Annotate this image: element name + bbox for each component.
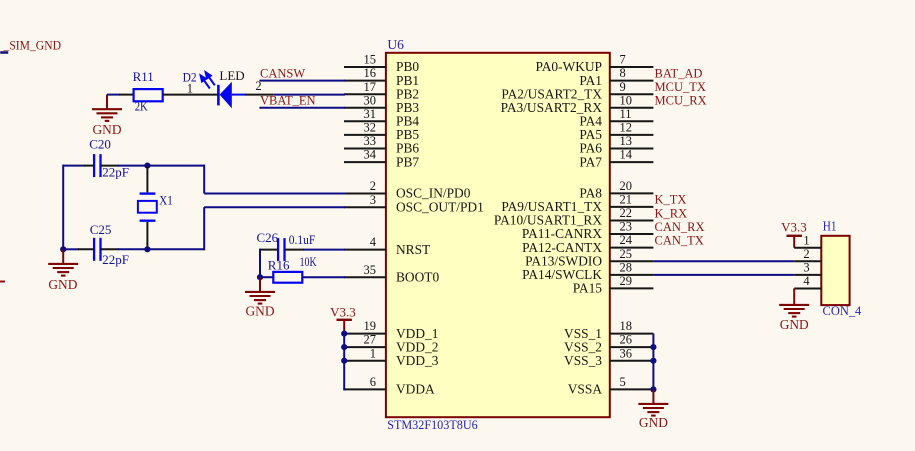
svg-text:_SIM_GND: _SIM_GND <box>3 37 61 52</box>
svg-text:17: 17 <box>364 80 377 94</box>
wire top row right <box>101 165 148 167</box>
svg-text:R11: R11 <box>133 69 154 84</box>
pin stub PA0-WKUP (pin 7) right <box>610 66 654 68</box>
pin name PB2 <box>396 86 419 101</box>
pin name PA2/USART2_TX <box>501 86 602 101</box>
junction R16 left <box>257 274 263 280</box>
wire bottom row right <box>101 248 148 250</box>
pin stub PA12-CANTX (pin 24) right <box>610 247 654 249</box>
pin number 28 right <box>620 261 633 275</box>
label R11 <box>133 69 154 84</box>
pin number 4 left <box>370 235 377 249</box>
svg-text:36: 36 <box>620 346 633 360</box>
svg-text:GND: GND <box>780 317 809 332</box>
svg-text:10K: 10K <box>300 255 317 269</box>
H1 pin number 3 <box>803 261 809 275</box>
net label VBAT_EN <box>260 94 316 108</box>
pin number 8 right <box>620 66 626 80</box>
pin number 5 right <box>620 375 626 389</box>
pin stub PA4 (pin 11) right <box>610 120 654 122</box>
svg-text:33: 33 <box>364 134 377 148</box>
label C20 <box>89 137 111 152</box>
pin number 35 left <box>364 263 377 277</box>
power V3.3 (H1) <box>787 236 802 248</box>
label C26 <box>257 230 279 245</box>
pin name PA12-CANTX <box>522 240 602 255</box>
net label CANSW <box>260 66 305 80</box>
IC U6 body <box>386 53 610 417</box>
svg-text:MCU_TX: MCU_TX <box>655 80 706 94</box>
pin name BOOT0 <box>396 269 439 284</box>
wire corner down to junction <box>259 249 261 278</box>
pin stub PB6 (pin 33) left <box>344 148 386 150</box>
svg-text:3: 3 <box>370 193 376 207</box>
pin number 10 right <box>620 93 633 107</box>
GND label (R11 branch) <box>92 122 121 137</box>
pin name PA1 <box>579 73 602 88</box>
value 22pF (C20) <box>102 165 129 180</box>
value 0.1uF <box>289 233 316 247</box>
value 10K <box>300 255 317 269</box>
pin stub VSSA (pin 5) right <box>610 388 654 390</box>
pin name PA3/USART2_RX <box>501 100 603 115</box>
pin stub PB4 (pin 31) left <box>344 120 386 122</box>
svg-text:26: 26 <box>620 333 633 347</box>
pin stub VDD_3 (pin 1) left <box>344 360 386 362</box>
pin number 31 left <box>364 107 377 121</box>
ground symbol (BOOT0 branch) <box>245 277 275 303</box>
pin name OSC_IN/PD0 <box>396 186 471 201</box>
pin stub PA1 (pin 8) right <box>610 80 654 82</box>
svg-text:20: 20 <box>620 179 633 193</box>
pin name PB7 <box>396 154 419 169</box>
pin stub PA13/SWDIO (pin 25) right <box>610 260 654 262</box>
svg-text:35: 35 <box>364 263 377 277</box>
svg-text:PA7: PA7 <box>579 154 602 169</box>
svg-text:GND: GND <box>245 304 274 319</box>
pin number 7 right <box>620 53 626 67</box>
svg-text:VSS_3: VSS_3 <box>564 353 602 368</box>
value 22pF (C25) <box>102 252 129 267</box>
pin stub PA7 (pin 14) right <box>610 161 654 163</box>
LED D2 emission arrows <box>201 72 215 88</box>
value 2K <box>135 99 148 113</box>
pin number 34 left <box>364 148 377 162</box>
svg-text:CANSW: CANSW <box>260 66 305 80</box>
svg-text:PA15: PA15 <box>573 281 603 296</box>
pin name PB0 <box>396 59 419 74</box>
svg-text:28: 28 <box>620 261 633 275</box>
ground symbol (R11 branch) <box>92 95 122 121</box>
pin stub PB7 (pin 34) left <box>344 161 386 163</box>
pin number 32 left <box>364 121 377 135</box>
GND label (H1) <box>780 317 809 332</box>
pin stub PA2/USART2_TX (pin 9) right <box>610 93 654 95</box>
pin name PA9/USART1_TX <box>501 199 602 214</box>
pin number 30 left <box>364 93 377 107</box>
pin stub VDDA (pin 6) left <box>344 388 386 390</box>
svg-text:18: 18 <box>620 319 633 333</box>
wire VBAT_EN net <box>259 107 345 109</box>
junction left bottom <box>60 246 66 252</box>
svg-text:11: 11 <box>620 107 632 121</box>
svg-text:2: 2 <box>803 247 809 261</box>
net label K_RX <box>655 206 688 220</box>
pin number 6 left <box>370 375 376 389</box>
svg-text:CON_4: CON_4 <box>823 304 862 318</box>
net label MCU_TX <box>655 80 706 94</box>
svg-text:25: 25 <box>620 247 633 261</box>
net label BAT_AD <box>655 66 703 80</box>
label X1 <box>159 193 173 207</box>
pin stub VSS_2 (pin 26) right <box>610 346 654 348</box>
pin number 26 right <box>620 333 633 347</box>
pin number 12 right <box>620 121 633 135</box>
pin stub OSC_IN/PD0 (pin 2) left <box>344 193 386 195</box>
wire top row left <box>63 165 94 167</box>
GND label (BOOT0 branch) <box>245 304 274 319</box>
connector H1 value CON_4 <box>823 304 862 318</box>
svg-text:VSSA: VSSA <box>568 382 603 397</box>
LED pin number 1 <box>187 81 193 95</box>
pin stub PA8 (pin 20) right <box>610 192 654 194</box>
svg-text:30: 30 <box>364 93 377 107</box>
capacitor C20 <box>94 154 100 177</box>
wire GND to R11 <box>107 94 134 96</box>
wire junction to corner bottom <box>147 248 204 250</box>
wire VSS vertical <box>652 334 654 390</box>
pin stub VSS_1 (pin 18) right <box>610 333 654 335</box>
V3.3 label (H1) <box>781 220 807 235</box>
svg-text:MCU_RX: MCU_RX <box>655 94 707 108</box>
pin stub PA3/USART2_RX (pin 10) right <box>610 107 654 109</box>
label D2 <box>183 70 197 84</box>
junction bottom of X1 <box>144 246 150 252</box>
svg-text:27: 27 <box>364 333 377 347</box>
svg-text:14: 14 <box>620 148 633 162</box>
wire C26 left to corner <box>260 249 278 251</box>
pin number 21 right <box>620 193 633 207</box>
pin stub PA6 (pin 13) right <box>610 148 654 150</box>
svg-text:BAT_AD: BAT_AD <box>655 66 703 80</box>
svg-text:GND: GND <box>48 277 77 292</box>
pin stub PA11-CANRX (pin 23) right <box>610 233 654 235</box>
pin name PB4 <box>396 114 419 129</box>
svg-text:12: 12 <box>620 121 633 135</box>
svg-text:4: 4 <box>370 235 377 249</box>
H1 pin 3 lead <box>794 274 821 276</box>
pin name PB6 <box>396 141 419 156</box>
pin stub PB0 (pin 15) left <box>344 66 386 68</box>
junction VSS_2 <box>650 344 656 350</box>
pin stub PA15 (pin 29) right <box>610 287 654 289</box>
LED pin number 2 <box>255 79 261 93</box>
pin stub NRST (pin 4) left <box>344 249 386 251</box>
svg-text:15: 15 <box>364 53 377 67</box>
pin number 20 right <box>620 179 633 193</box>
wire R11 to LED <box>163 94 218 96</box>
svg-text:1: 1 <box>370 346 376 360</box>
capacitor C25 <box>94 238 100 261</box>
svg-text:1: 1 <box>803 233 809 247</box>
pin number 23 right <box>620 220 633 234</box>
H1 pin 2 lead <box>794 260 821 262</box>
svg-text:9: 9 <box>620 80 626 94</box>
svg-text:4: 4 <box>803 274 810 288</box>
wire VDD vertical <box>343 334 345 390</box>
pin number 3 left <box>370 193 376 207</box>
H1 pin number 1 <box>803 233 809 247</box>
svg-text:1: 1 <box>187 81 193 95</box>
svg-text:V3.3: V3.3 <box>330 305 356 320</box>
svg-text:GND: GND <box>639 415 668 430</box>
net label _SIM_GND <box>0 37 61 52</box>
wire R16 to BOOT0 <box>302 276 345 278</box>
GND label (crystal) <box>48 277 77 292</box>
wire junction to R16 <box>260 276 273 278</box>
pin name PA0-WKUP <box>536 59 602 74</box>
pin name NRST <box>396 242 430 257</box>
IC U6 part value STM32F103T8U6 <box>387 417 478 432</box>
pin number 15 left <box>364 53 377 67</box>
wire X1 bottom lead <box>146 222 148 249</box>
svg-text:CAN_TX: CAN_TX <box>655 233 704 247</box>
svg-text:C25: C25 <box>90 222 112 237</box>
wire corner down to OSC_IN <box>204 165 345 194</box>
svg-text:VBAT_EN: VBAT_EN <box>260 94 316 108</box>
pin number 36 right <box>620 346 633 360</box>
svg-text:VDDA: VDDA <box>396 382 435 397</box>
junction VDD_3 <box>341 358 347 364</box>
pin name VSS_3 <box>564 353 602 368</box>
pin number 9 right <box>620 80 626 94</box>
pin name PA4 <box>579 114 602 129</box>
H1 pin 1 lead <box>794 247 821 249</box>
svg-text:C20: C20 <box>89 137 111 152</box>
pin stub PA5 (pin 12) right <box>610 134 654 136</box>
pin number 2 left <box>370 179 376 193</box>
svg-text:8: 8 <box>620 66 626 80</box>
ground symbol (VSS rail) <box>638 389 668 415</box>
svg-text:24: 24 <box>620 233 633 247</box>
connector H1 body <box>821 236 849 305</box>
crystal X1 <box>138 194 157 221</box>
pin name VSSA <box>568 382 603 397</box>
pin stub PB5 (pin 32) left <box>344 134 386 136</box>
wire LED to PB2 <box>245 94 345 96</box>
pin stub PB1 (pin 16) left <box>344 80 386 82</box>
ground symbol (H1) <box>779 289 809 317</box>
net label MCU_RX <box>655 94 707 108</box>
svg-text:19: 19 <box>364 319 377 333</box>
svg-text:VDD_3: VDD_3 <box>396 353 439 368</box>
pin name PA6 <box>579 141 602 156</box>
svg-text:21: 21 <box>620 193 633 207</box>
pin name PA10/USART1_RX <box>494 213 602 228</box>
pin number 27 left <box>364 333 377 347</box>
H1 pin 4 lead <box>794 288 821 290</box>
pin stub PA10/USART1_RX (pin 22) right <box>610 220 654 222</box>
connector H1 designator <box>823 218 837 233</box>
ground symbol (crystal) <box>48 249 78 275</box>
pin number 29 right <box>620 274 633 288</box>
pin number 33 left <box>364 134 377 148</box>
svg-text:BOOT0: BOOT0 <box>396 269 439 284</box>
pin number 13 right <box>620 134 633 148</box>
pin name VDD_2 <box>396 339 438 354</box>
pin number 22 right <box>620 206 633 220</box>
junction VDD_1 <box>341 331 347 337</box>
pin name PB3 <box>396 100 419 115</box>
svg-text:22: 22 <box>620 206 633 220</box>
net label CAN_RX <box>655 220 705 234</box>
wire CANSW net <box>259 80 345 82</box>
svg-text:NRST: NRST <box>396 242 430 257</box>
svg-text:10: 10 <box>620 93 633 107</box>
pin stub PA9/USART1_TX (pin 21) right <box>610 206 654 208</box>
wire junction to corner top <box>147 165 204 167</box>
svg-text:3: 3 <box>803 261 809 275</box>
svg-text:K_TX: K_TX <box>655 193 687 207</box>
wire VDDA corner <box>343 388 346 390</box>
svg-text:CAN_RX: CAN_RX <box>655 220 705 234</box>
svg-text:22pF: 22pF <box>102 252 129 267</box>
svg-text:R16: R16 <box>268 257 290 272</box>
svg-text:PB7: PB7 <box>396 154 419 169</box>
pin name PA13/SWDIO <box>525 254 602 269</box>
svg-text:2: 2 <box>370 179 376 193</box>
pin number 19 left <box>364 319 377 333</box>
resistor R11 <box>134 89 163 101</box>
svg-text:U6: U6 <box>387 37 404 52</box>
pin name PB5 <box>396 127 419 142</box>
H1 pin number 4 <box>803 274 810 288</box>
pin stub PB2 (pin 17) left <box>344 93 386 95</box>
pin name VDD_3 <box>396 353 439 368</box>
svg-text:16: 16 <box>364 66 377 80</box>
wire corner up to OSC_OUT <box>204 207 345 250</box>
IC U6 designator <box>387 37 404 52</box>
svg-text:22pF: 22pF <box>102 165 129 180</box>
wire bottom row left <box>63 248 94 250</box>
pin name VDD_1 <box>396 326 438 341</box>
svg-text:C26: C26 <box>257 230 279 245</box>
V3.3 label (VDD rail) <box>330 305 356 320</box>
pin stub VSS_3 (pin 36) right <box>610 360 654 362</box>
junction top of X1 <box>144 163 150 169</box>
wire C26 right to NRST <box>285 249 346 251</box>
pin stub OSC_OUT/PD1 (pin 3) left <box>344 206 386 208</box>
pin name PA14/SWCLK <box>522 267 602 282</box>
net label K_TX <box>655 193 687 207</box>
pin stub VDD_2 (pin 27) left <box>344 346 386 348</box>
wire X1 top lead <box>146 166 148 193</box>
wire PA13 to H1 pin2 <box>653 260 794 262</box>
label LED <box>219 68 244 83</box>
junction VSSA <box>650 386 656 392</box>
svg-text:23: 23 <box>620 220 633 234</box>
label C25 <box>90 222 112 237</box>
pin number 17 left <box>364 80 377 94</box>
net label CAN_TX <box>655 233 704 247</box>
pin number 1 left <box>370 346 376 360</box>
wire PA14 to H1 pin3 <box>653 274 794 276</box>
pin number 16 left <box>364 66 377 80</box>
pin name PA15 <box>573 281 603 296</box>
pin stub VDD_1 (pin 19) left <box>344 333 386 335</box>
junction VDD_2 <box>341 344 347 350</box>
resistor R16 <box>273 272 302 283</box>
pin name PA7 <box>579 154 602 169</box>
svg-text:29: 29 <box>620 274 633 288</box>
svg-text:LED: LED <box>219 68 244 83</box>
svg-text:GND: GND <box>92 122 121 137</box>
pin number 18 right <box>620 319 633 333</box>
junction VSS_3 <box>650 358 656 364</box>
pin number 25 right <box>620 247 633 261</box>
pin name OSC_OUT/PD1 <box>396 199 484 214</box>
pin name PA11-CANRX <box>522 226 602 241</box>
power V3.3 (VDD rail) <box>337 320 352 334</box>
pin stub BOOT0 (pin 35) left <box>344 276 386 278</box>
svg-text:31: 31 <box>364 107 377 121</box>
pin number 24 right <box>620 233 633 247</box>
label R16 <box>268 257 290 272</box>
pin name VSS_1 <box>564 326 602 341</box>
H1 pin number 2 <box>803 247 809 261</box>
svg-text:6: 6 <box>370 375 376 389</box>
pin name VSS_2 <box>564 339 602 354</box>
svg-text:OSC_OUT/PD1: OSC_OUT/PD1 <box>396 199 484 214</box>
svg-text:2K: 2K <box>135 99 148 113</box>
pin stub PB3 (pin 30) left <box>344 107 386 109</box>
pin number 14 right <box>620 148 633 162</box>
svg-text:0.1uF: 0.1uF <box>289 233 316 247</box>
svg-text:13: 13 <box>620 134 633 148</box>
svg-text:K_RX: K_RX <box>655 206 688 220</box>
svg-text:H1: H1 <box>823 218 837 233</box>
svg-text:34: 34 <box>364 148 377 162</box>
pin stub PA14/SWCLK (pin 28) right <box>610 274 654 276</box>
pin name PA8 <box>579 186 602 201</box>
pin name PB1 <box>396 73 419 88</box>
svg-text:32: 32 <box>364 121 377 135</box>
LED D2 <box>218 82 245 108</box>
wire left vertical <box>62 165 64 250</box>
svg-text:X1: X1 <box>159 193 173 207</box>
wire H1 pin4 corner down <box>793 289 795 290</box>
svg-text:7: 7 <box>620 53 626 67</box>
stray mark left edge <box>0 281 5 283</box>
pin number 11 right <box>620 107 632 121</box>
pin name PA5 <box>579 127 602 142</box>
GND label (VSS rail) <box>639 415 668 430</box>
svg-text:5: 5 <box>620 375 626 389</box>
pin name VDDA <box>396 382 435 397</box>
capacitor C26 <box>278 238 284 261</box>
svg-text:STM32F103T8U6: STM32F103T8U6 <box>387 417 478 432</box>
